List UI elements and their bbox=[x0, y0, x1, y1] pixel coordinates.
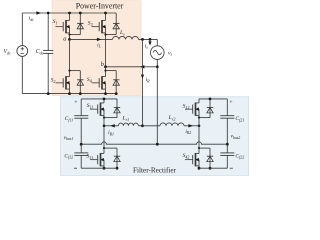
svg-text:S12: S12 bbox=[183, 104, 190, 110]
svg-text:S42: S42 bbox=[183, 153, 190, 159]
wire center-tap line with hops bbox=[81, 142, 227, 144]
svg-text:Filter-Rectifier: Filter-Rectifier bbox=[133, 166, 177, 174]
svg-text:Cf22: Cf22 bbox=[235, 153, 244, 159]
svg-text:Ls: Ls bbox=[119, 30, 125, 36]
wire rect left top rail bbox=[81, 98, 117, 100]
svg-text:Cf12: Cf12 bbox=[64, 153, 73, 159]
svg-text:Lr1: Lr1 bbox=[121, 116, 129, 122]
label - left bus bbox=[74, 167, 77, 169]
wire Ls to vs bend bbox=[139, 38, 158, 40]
node ct vs junction bbox=[156, 143, 159, 146]
wire bottom rail bbox=[22, 93, 116, 95]
inductor Lr2 bbox=[160, 123, 184, 126]
node feed A bbox=[141, 38, 144, 41]
svg-text:b: b bbox=[101, 61, 104, 68]
transistor S3 with body diode bbox=[105, 13, 107, 20]
capacitor Cf11 bbox=[74, 115, 88, 117]
svg-text:vs: vs bbox=[168, 50, 172, 56]
svg-text:Cf21: Cf21 bbox=[235, 116, 244, 122]
transistor S11 with body diode bbox=[103, 99, 105, 103]
node b-S4 join bbox=[104, 70, 106, 72]
node rect rail S11 drain bbox=[103, 98, 106, 101]
wire left bus top bbox=[80, 99, 82, 116]
node feed-m junction bbox=[141, 124, 144, 127]
inductor Ls bbox=[113, 36, 139, 39]
wire rect left bottom rail bbox=[81, 167, 117, 169]
wire rect right top rail bbox=[199, 98, 227, 100]
svg-text:Power-Inverter: Power-Inverter bbox=[76, 2, 124, 11]
capacitor Cf22 bbox=[220, 152, 234, 154]
wire left bus bottom bbox=[80, 155, 82, 168]
wire feed A drop bbox=[142, 39, 144, 125]
transistor S4 with body diode bbox=[106, 70, 117, 72]
svg-text:Cdc: Cdc bbox=[36, 49, 44, 55]
node m1 bbox=[103, 125, 106, 128]
svg-text:Lr2: Lr2 bbox=[168, 115, 176, 121]
transistor S1 with body diode bbox=[69, 13, 71, 20]
wire a to S2 bbox=[69, 39, 71, 70]
svg-text:Cf11: Cf11 bbox=[65, 116, 74, 122]
arrow i_R2 bbox=[188, 124, 193, 127]
node b bbox=[104, 65, 107, 68]
svg-text:iR: iR bbox=[146, 77, 151, 83]
arrow i_R bbox=[141, 75, 144, 79]
capacitor Cf21 bbox=[220, 115, 234, 117]
transistor S42 with body diode bbox=[198, 126, 200, 148]
transistor S2 with body diode bbox=[70, 70, 81, 72]
svg-text:S4: S4 bbox=[87, 77, 92, 83]
wire left bus mid bbox=[80, 118, 82, 153]
arrow i_R1 bbox=[110, 124, 115, 127]
wire top rail bbox=[22, 12, 116, 14]
source Vdc bbox=[17, 46, 28, 57]
node feed is bbox=[149, 38, 152, 41]
svg-text:S1: S1 bbox=[53, 19, 58, 25]
label - right bus bbox=[230, 167, 233, 169]
wire vs bottom bbox=[156, 59, 158, 144]
svg-text:S3: S3 bbox=[88, 20, 93, 26]
node a bbox=[68, 38, 71, 41]
wire right bus mid bbox=[226, 118, 228, 153]
node vs-b junction bbox=[156, 65, 159, 68]
wire a-line bbox=[70, 38, 113, 40]
node ct left bus bbox=[80, 143, 83, 146]
wire right bus bottom bbox=[226, 155, 228, 168]
wire Lr1 to feed bbox=[138, 125, 142, 127]
arrow i_s annotation bbox=[149, 39, 151, 43]
arrow i_L bbox=[97, 38, 102, 41]
wire m-line left bbox=[104, 125, 118, 127]
node bottom rail Cdc bbox=[47, 92, 50, 95]
svg-text:S11: S11 bbox=[87, 103, 94, 109]
svg-text:is: is bbox=[145, 43, 149, 49]
power-inverter shaded region bbox=[52, 1, 141, 96]
node ct right bus bbox=[226, 143, 229, 146]
filter-rectifier shaded region bbox=[61, 97, 249, 176]
transistor S12 with body diode bbox=[198, 99, 200, 103]
arrow b-line current bbox=[140, 65, 145, 68]
wire Vdc bottom drop bbox=[21, 56, 23, 93]
svg-text:a: a bbox=[63, 36, 66, 43]
source vs bbox=[151, 46, 165, 60]
svg-text:S31: S31 bbox=[86, 153, 93, 159]
node top rail Cdc bbox=[47, 12, 50, 15]
wire Lr2 to m2 bbox=[184, 125, 199, 127]
node top rail S3 drain bbox=[104, 12, 107, 15]
node top rail S1 diode bbox=[79, 12, 82, 15]
wire b-line bbox=[106, 66, 158, 68]
transistor S31 with body diode bbox=[103, 126, 105, 148]
node a-S2 join bbox=[68, 70, 70, 72]
wire Vdc left drop top bbox=[21, 13, 23, 46]
node rect rail S12 diode bbox=[209, 98, 212, 101]
wire right bus top bbox=[226, 99, 228, 116]
svg-text:idc: idc bbox=[29, 15, 35, 21]
node top rail S1 drain bbox=[68, 12, 71, 15]
svg-text:+: + bbox=[74, 100, 78, 106]
wire S3 to b to S4 bbox=[105, 67, 107, 71]
svg-text:S2: S2 bbox=[51, 77, 56, 83]
wire m-line feed to Lr2 bbox=[143, 125, 161, 127]
inductor Lr1 bbox=[118, 123, 138, 126]
capacitor Cdc bbox=[47, 13, 49, 50]
wire rect right bottom rail bbox=[199, 167, 227, 169]
svg-text:Vdc: Vdc bbox=[3, 49, 11, 55]
capacitor Cf12 bbox=[74, 152, 88, 154]
node m2 bbox=[198, 125, 201, 128]
arrow i_dc bbox=[36, 11, 41, 14]
